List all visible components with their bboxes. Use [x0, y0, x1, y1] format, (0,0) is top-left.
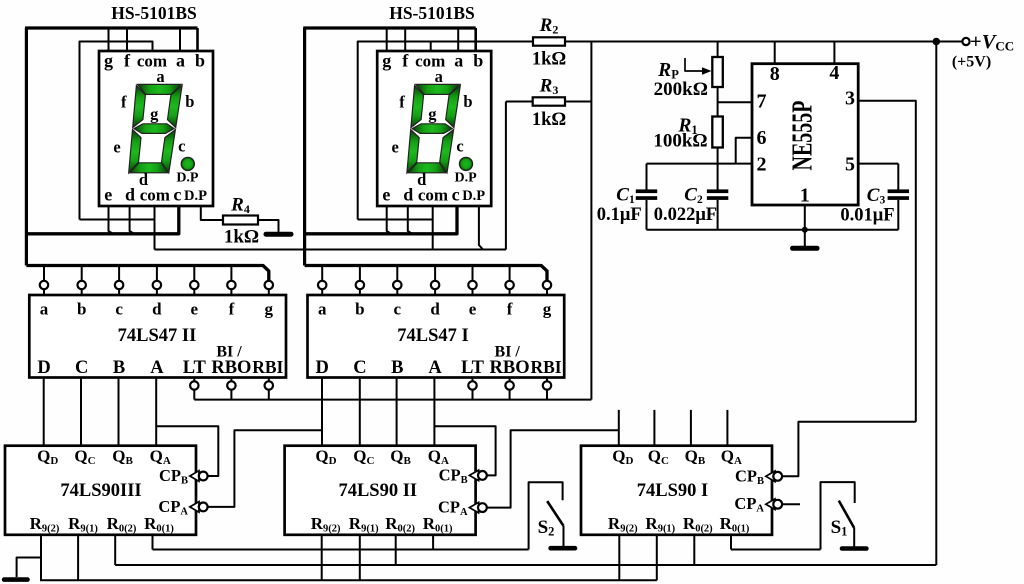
svg-text:g: g: [382, 51, 391, 71]
svg-text:f: f: [399, 93, 405, 112]
svg-text:0.022μF: 0.022μF: [654, 205, 717, 225]
svg-text:RBO: RBO: [211, 358, 251, 378]
svg-text:f: f: [507, 300, 513, 319]
svg-text:c: c: [456, 137, 463, 156]
svg-text:B: B: [113, 358, 125, 378]
svg-text:3: 3: [845, 88, 855, 110]
svg-text:c: c: [394, 300, 402, 319]
svg-text:d: d: [152, 300, 162, 319]
svg-text:74LS90III: 74LS90III: [60, 481, 141, 501]
svg-text:C: C: [353, 358, 366, 378]
svg-text:RBI: RBI: [252, 357, 283, 377]
svg-text:b: b: [77, 300, 86, 319]
svg-text:d: d: [139, 170, 148, 189]
svg-text:NE555P: NE555P: [787, 101, 818, 171]
svg-text:e: e: [469, 300, 477, 319]
svg-text:d: d: [430, 300, 440, 319]
svg-text:RBI: RBI: [530, 357, 561, 377]
svg-text:7: 7: [757, 91, 767, 113]
svg-text:74LS47 II: 74LS47 II: [118, 326, 197, 346]
svg-text:74LS47 I: 74LS47 I: [397, 326, 468, 346]
svg-text:1kΩ: 1kΩ: [532, 110, 566, 130]
svg-text:5: 5: [845, 154, 855, 176]
svg-text:6: 6: [757, 127, 767, 149]
svg-text:D.P: D.P: [184, 188, 207, 204]
svg-text:0.1μF: 0.1μF: [597, 205, 642, 225]
svg-text:g: g: [265, 300, 274, 319]
svg-text:f: f: [402, 51, 409, 71]
svg-text:200kΩ: 200kΩ: [654, 79, 708, 100]
svg-text:b: b: [463, 92, 472, 111]
svg-text:e: e: [104, 184, 112, 204]
svg-text:1kΩ: 1kΩ: [224, 227, 259, 248]
svg-text:(+5V): (+5V): [952, 54, 991, 71]
svg-text:4: 4: [829, 62, 839, 84]
svg-text:f: f: [121, 93, 127, 112]
svg-text:c: c: [173, 184, 181, 204]
svg-text:e: e: [191, 300, 199, 319]
svg-text:HS-5101BS: HS-5101BS: [111, 3, 197, 23]
svg-text:f: f: [124, 51, 131, 71]
svg-text:g: g: [150, 105, 159, 124]
svg-text:0.01μF: 0.01μF: [840, 206, 894, 226]
svg-text:D: D: [316, 358, 329, 378]
svg-text:b: b: [473, 51, 483, 71]
svg-text:74LS90 II: 74LS90 II: [338, 481, 417, 501]
svg-text:8: 8: [770, 63, 780, 85]
svg-text:2: 2: [757, 154, 767, 176]
svg-text:D.P: D.P: [462, 188, 485, 204]
svg-text:1kΩ: 1kΩ: [532, 50, 566, 70]
svg-text:e: e: [382, 184, 390, 204]
svg-text:b: b: [185, 92, 194, 111]
svg-text:1: 1: [800, 185, 810, 207]
svg-text:C: C: [75, 358, 88, 378]
svg-text:RBO: RBO: [490, 358, 530, 378]
svg-text:c: c: [452, 184, 460, 204]
svg-text:a: a: [156, 67, 164, 86]
svg-text:g: g: [428, 105, 437, 124]
svg-text:g: g: [543, 300, 552, 319]
svg-text:d: d: [417, 170, 426, 189]
svg-text:A: A: [150, 358, 164, 378]
svg-text:74LS90 I: 74LS90 I: [637, 481, 708, 501]
svg-text:c: c: [115, 300, 123, 319]
svg-text:f: f: [229, 300, 235, 319]
svg-text:a: a: [40, 300, 49, 319]
svg-text:D.P: D.P: [176, 170, 199, 185]
svg-text:e: e: [392, 138, 399, 157]
svg-text:c: c: [178, 137, 185, 156]
svg-text:g: g: [104, 51, 113, 71]
svg-text:LT: LT: [183, 358, 207, 378]
svg-text:A: A: [428, 358, 442, 378]
svg-text:HS-5101BS: HS-5101BS: [389, 3, 475, 23]
svg-text:a: a: [435, 67, 443, 86]
svg-text:100kΩ: 100kΩ: [653, 131, 707, 152]
svg-text:e: e: [113, 138, 120, 157]
svg-text:LT: LT: [461, 358, 485, 378]
svg-text:d: d: [125, 184, 135, 204]
svg-text:B: B: [391, 358, 403, 378]
svg-text:b: b: [195, 51, 205, 71]
svg-text:D.P: D.P: [455, 170, 478, 185]
svg-text:a: a: [454, 50, 463, 70]
svg-text:b: b: [355, 300, 364, 319]
svg-text:d: d: [403, 184, 413, 204]
svg-text:a: a: [176, 50, 185, 70]
svg-text:D: D: [37, 358, 50, 378]
svg-text:a: a: [318, 300, 327, 319]
